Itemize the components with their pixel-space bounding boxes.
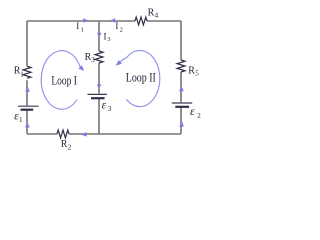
- current arrow middle down (above E3): [97, 84, 102, 89]
- svg-text:I: I: [76, 21, 79, 31]
- svg-text:3: 3: [91, 56, 95, 64]
- label R4: [148, 8, 159, 20]
- svg-text:Loop II: Loop II: [126, 71, 156, 85]
- current arrow bottom wire left (right of R2): [80, 132, 86, 136]
- svg-text:2: 2: [197, 112, 201, 120]
- label I1: [76, 21, 84, 33]
- current arrow right wire up (above E2): [179, 86, 184, 91]
- svg-text:R: R: [61, 139, 68, 150]
- resistor R4: [135, 17, 147, 25]
- svg-text:3: 3: [107, 36, 110, 43]
- svg-text:3: 3: [108, 105, 112, 113]
- wire top-right segment: [99, 20, 181, 22]
- battery E3: [88, 94, 108, 98]
- svg-text:1: 1: [81, 26, 84, 33]
- svg-text:I: I: [115, 21, 118, 31]
- resistor R5: [177, 60, 185, 72]
- loop II arc: [120, 51, 160, 107]
- label R2: [61, 139, 72, 152]
- svg-text:2: 2: [120, 26, 123, 33]
- label R5: [188, 65, 199, 77]
- current arrow I2: [110, 18, 115, 23]
- resistor R1: [23, 66, 31, 78]
- resistor R2: [57, 130, 69, 138]
- label I2: [115, 21, 122, 33]
- svg-text:2: 2: [68, 144, 72, 152]
- current arrow left wire up (above E1): [25, 87, 30, 92]
- battery E1: [18, 106, 39, 110]
- resistor R3: [95, 51, 103, 63]
- current arrow I1: [83, 18, 88, 23]
- svg-text:ε: ε: [102, 99, 107, 111]
- svg-text:1: 1: [20, 70, 24, 78]
- wire bottom: [27, 133, 181, 135]
- label R3: [85, 52, 96, 64]
- current arrow right wire up (below E2): [179, 120, 184, 126]
- svg-text:1: 1: [19, 116, 23, 124]
- svg-text:ε: ε: [190, 104, 195, 118]
- current arrow I3: [97, 33, 102, 38]
- label E3: [102, 99, 112, 113]
- wire top-left segment: [27, 20, 99, 22]
- svg-text:R: R: [148, 8, 155, 19]
- label E2: [190, 104, 201, 120]
- svg-text:I: I: [104, 31, 107, 41]
- current arrow left wire up (below E1): [25, 122, 30, 127]
- label E1: [14, 109, 23, 124]
- svg-text:5: 5: [195, 70, 199, 78]
- wire right vertical: [180, 21, 182, 134]
- svg-text:R: R: [188, 65, 195, 76]
- label R1: [14, 65, 24, 78]
- loop I arrowhead: [79, 65, 85, 71]
- wire left vertical: [26, 21, 28, 134]
- loop II arrowhead: [116, 60, 122, 66]
- svg-text:4: 4: [155, 12, 159, 20]
- battery E2: [172, 103, 192, 107]
- wire middle vertical: [98, 21, 100, 134]
- svg-text:Loop I: Loop I: [51, 74, 77, 88]
- loop I arc: [41, 51, 80, 110]
- label I3: [104, 31, 111, 43]
